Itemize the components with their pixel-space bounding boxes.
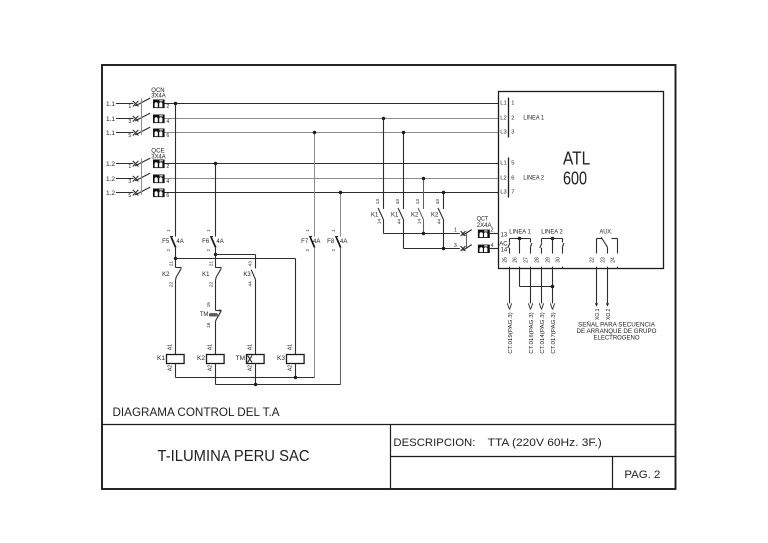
svg-text:22: 22 bbox=[208, 281, 214, 287]
svg-text:1: 1 bbox=[305, 229, 310, 232]
svg-text:22: 22 bbox=[590, 257, 596, 263]
svg-text:K2: K2 bbox=[431, 212, 439, 218]
svg-text:L1: L1 bbox=[500, 101, 506, 107]
svg-text:K3: K3 bbox=[277, 355, 285, 362]
svg-text:T-ILUMINA PERU SAC: T-ILUMINA PERU SAC bbox=[158, 448, 310, 465]
svg-text:AUX.: AUX. bbox=[600, 229, 613, 235]
svg-text:26: 26 bbox=[513, 257, 519, 263]
svg-text:16: 16 bbox=[206, 322, 212, 328]
svg-text:K1: K1 bbox=[371, 212, 379, 218]
svg-text:A1: A1 bbox=[248, 344, 254, 350]
svg-text:14: 14 bbox=[377, 219, 383, 225]
svg-text:1.2: 1.2 bbox=[106, 190, 115, 197]
svg-text:5: 5 bbox=[511, 161, 514, 167]
svg-text:44: 44 bbox=[437, 219, 443, 225]
svg-text:LINEA 1: LINEA 1 bbox=[523, 115, 544, 121]
svg-text:44: 44 bbox=[248, 281, 254, 287]
svg-text:4: 4 bbox=[491, 243, 494, 249]
svg-text:A2: A2 bbox=[208, 365, 214, 371]
svg-text:QCT: QCT bbox=[477, 216, 489, 222]
svg-text:1.1: 1.1 bbox=[106, 130, 115, 137]
svg-text:2: 2 bbox=[206, 248, 211, 251]
svg-text:2: 2 bbox=[305, 248, 310, 251]
svg-text:5: 5 bbox=[128, 193, 131, 199]
svg-text:CT.014(PAG.3): CT.014(PAG.3) bbox=[540, 312, 546, 354]
svg-text:1: 1 bbox=[511, 101, 514, 107]
svg-text:13: 13 bbox=[415, 199, 421, 205]
svg-text:6: 6 bbox=[511, 176, 514, 182]
svg-text:1: 1 bbox=[454, 227, 457, 233]
svg-text:15: 15 bbox=[206, 302, 212, 308]
svg-text:AC: AC bbox=[499, 241, 508, 247]
svg-text:A2: A2 bbox=[168, 365, 174, 371]
svg-text:ATL: ATL bbox=[563, 149, 590, 169]
svg-text:29: 29 bbox=[546, 257, 552, 263]
svg-text:3X4A: 3X4A bbox=[151, 154, 165, 160]
svg-text:TTA (220V 60Hz. 3F.): TTA (220V 60Hz. 3F.) bbox=[488, 437, 602, 449]
svg-text:3: 3 bbox=[128, 179, 131, 185]
svg-text:1: 1 bbox=[331, 229, 336, 232]
svg-text:TM: TM bbox=[236, 355, 245, 362]
svg-text:21: 21 bbox=[208, 261, 214, 267]
svg-text:LINEA 2: LINEA 2 bbox=[541, 229, 563, 235]
svg-text:14: 14 bbox=[501, 248, 508, 254]
svg-text:K1: K1 bbox=[202, 272, 210, 278]
svg-text:1: 1 bbox=[128, 104, 131, 110]
svg-text:ELECTROGENO: ELECTROGENO bbox=[594, 334, 640, 341]
svg-text:3: 3 bbox=[454, 243, 457, 249]
svg-text:K2: K2 bbox=[162, 272, 170, 278]
svg-text:A2: A2 bbox=[288, 365, 294, 371]
svg-text:K2: K2 bbox=[411, 212, 419, 218]
svg-text:3: 3 bbox=[128, 119, 131, 125]
svg-text:22: 22 bbox=[168, 281, 174, 287]
svg-text:DIAGRAMA CONTROL DEL T.A: DIAGRAMA CONTROL DEL T.A bbox=[113, 405, 280, 419]
svg-text:L2: L2 bbox=[500, 176, 506, 182]
svg-text:2: 2 bbox=[511, 116, 514, 122]
svg-text:K3: K3 bbox=[243, 272, 251, 278]
svg-text:14: 14 bbox=[417, 219, 423, 225]
svg-text:4A: 4A bbox=[216, 239, 223, 245]
svg-text:L2: L2 bbox=[500, 116, 506, 122]
svg-text:4A: 4A bbox=[313, 239, 320, 245]
svg-text:L1: L1 bbox=[500, 161, 506, 167]
svg-text:2: 2 bbox=[166, 104, 169, 110]
svg-text:PAG. 2: PAG. 2 bbox=[624, 469, 660, 481]
svg-text:6: 6 bbox=[166, 193, 169, 199]
svg-text:CT.019(PAG.3): CT.019(PAG.3) bbox=[508, 312, 514, 354]
svg-text:1.1: 1.1 bbox=[106, 116, 115, 123]
svg-text:LINEA 2: LINEA 2 bbox=[523, 175, 544, 181]
svg-text:LINEA 1: LINEA 1 bbox=[509, 229, 531, 235]
svg-text:3: 3 bbox=[511, 130, 514, 136]
svg-text:3X4A: 3X4A bbox=[151, 94, 165, 100]
svg-text:30: 30 bbox=[556, 257, 562, 263]
svg-text:K2: K2 bbox=[197, 355, 205, 362]
svg-text:F8: F8 bbox=[327, 239, 335, 245]
svg-text:F7: F7 bbox=[301, 239, 309, 245]
svg-text:1.2: 1.2 bbox=[106, 161, 115, 168]
svg-text:2: 2 bbox=[166, 248, 171, 251]
svg-text:L3: L3 bbox=[500, 190, 506, 196]
svg-text:1: 1 bbox=[128, 164, 131, 170]
svg-text:4: 4 bbox=[166, 119, 169, 125]
svg-text:1.2: 1.2 bbox=[106, 176, 115, 183]
svg-text:K1: K1 bbox=[391, 212, 399, 218]
svg-text:F5: F5 bbox=[162, 239, 170, 245]
svg-text:XO.1: XO.1 bbox=[595, 309, 601, 321]
svg-text:13: 13 bbox=[501, 233, 508, 239]
svg-text:A1: A1 bbox=[208, 344, 214, 350]
svg-text:2: 2 bbox=[331, 248, 336, 251]
svg-text:XO.2: XO.2 bbox=[606, 309, 612, 321]
svg-text:28: 28 bbox=[535, 257, 541, 263]
svg-text:4: 4 bbox=[166, 179, 169, 185]
svg-text:TM: TM bbox=[200, 312, 209, 318]
svg-text:4A: 4A bbox=[340, 239, 347, 245]
svg-text:43: 43 bbox=[395, 199, 401, 205]
svg-text:2: 2 bbox=[166, 164, 169, 170]
svg-text:1: 1 bbox=[206, 229, 211, 232]
svg-text:2X4A: 2X4A bbox=[477, 223, 492, 229]
svg-text:DESCRIPCION:: DESCRIPCION: bbox=[393, 437, 475, 449]
svg-text:A1: A1 bbox=[168, 344, 174, 350]
svg-text:27: 27 bbox=[524, 257, 530, 263]
svg-text:6: 6 bbox=[166, 133, 169, 139]
svg-text:4A: 4A bbox=[176, 239, 183, 245]
svg-text:1: 1 bbox=[166, 229, 171, 232]
svg-text:25: 25 bbox=[503, 257, 509, 263]
svg-text:44: 44 bbox=[397, 219, 403, 225]
svg-text:5: 5 bbox=[128, 133, 131, 139]
svg-text:F6: F6 bbox=[202, 239, 210, 245]
svg-text:K1: K1 bbox=[157, 355, 165, 362]
svg-text:23: 23 bbox=[601, 257, 607, 263]
svg-text:CT.017(PAG.3): CT.017(PAG.3) bbox=[551, 312, 557, 354]
svg-text:43: 43 bbox=[248, 261, 254, 267]
svg-text:A2: A2 bbox=[248, 365, 254, 371]
svg-text:1.1: 1.1 bbox=[106, 101, 115, 108]
svg-text:24: 24 bbox=[611, 257, 617, 263]
svg-text:7: 7 bbox=[511, 190, 514, 196]
svg-text:13: 13 bbox=[375, 199, 381, 205]
svg-text:43: 43 bbox=[435, 199, 441, 205]
svg-text:600: 600 bbox=[563, 169, 587, 189]
svg-text:21: 21 bbox=[168, 261, 174, 267]
svg-text:L3: L3 bbox=[500, 130, 506, 136]
svg-text:A1: A1 bbox=[288, 344, 294, 350]
svg-text:CT.016(PAG.3): CT.016(PAG.3) bbox=[529, 312, 535, 354]
